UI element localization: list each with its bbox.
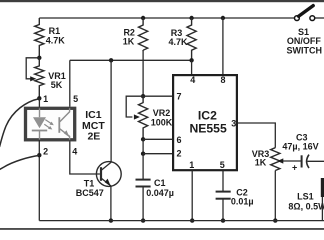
wire IC2 pin1 to ground rail bbox=[191, 171, 193, 221]
svg-text:4.7K: 4.7K bbox=[46, 36, 66, 46]
svg-text:47µ, 16V: 47µ, 16V bbox=[282, 141, 318, 151]
svg-text:2: 2 bbox=[176, 148, 181, 158]
wire IC2 pin8 riser bbox=[222, 18, 224, 75]
node VR2 top / IC2 pin7 junction bbox=[141, 94, 145, 98]
IC1 internal phototransistor emitter bbox=[60, 129, 70, 140]
svg-text:C1: C1 bbox=[154, 178, 166, 188]
svg-text:5: 5 bbox=[220, 160, 225, 170]
optocoupler IC1 package bbox=[26, 108, 75, 140]
capacitor C3 plus plate bbox=[301, 155, 303, 167]
node R3 top junction bbox=[189, 16, 193, 20]
wire R2 bottom to VR2 (crosses node A line) bbox=[142, 50, 144, 96]
wire node A horizontal (pin5 / T1 collector / R3 / IC2 pin4) bbox=[70, 59, 192, 61]
svg-text:0.047µ: 0.047µ bbox=[146, 188, 174, 198]
svg-text:8Ω, 0.5W: 8Ω, 0.5W bbox=[288, 202, 324, 212]
op IC2 NE555 package bbox=[173, 75, 237, 170]
IC1 internal phototransistor collector bbox=[60, 108, 70, 122]
resistor R1 bbox=[35, 18, 44, 58]
svg-text:SWITCH: SWITCH bbox=[287, 46, 323, 56]
wire input lead to IC1 pin1 (curved) bbox=[0, 99, 39, 147]
svg-text:0.01µ: 0.01µ bbox=[231, 197, 254, 207]
potentiometer VR1 bbox=[35, 58, 44, 99]
svg-text:4.7K: 4.7K bbox=[168, 37, 188, 47]
svg-text:R1: R1 bbox=[49, 26, 61, 36]
wire IC1 pin4 to T1 base bbox=[70, 141, 100, 174]
node R1/VR1 junction bbox=[37, 56, 41, 60]
IC1 internal LED anode lead bbox=[39, 108, 41, 117]
svg-text:ON/OFF: ON/OFF bbox=[287, 36, 321, 46]
svg-text:1K: 1K bbox=[123, 37, 135, 47]
wire VR2 bottom to pin2 node bbox=[142, 139, 144, 153]
node R3 bottom / IC2 pin4 junction bbox=[189, 58, 193, 62]
wire VR3 wiper to C3 bbox=[281, 160, 302, 162]
wire IC1 pin5 riser to node A bbox=[69, 60, 71, 106]
svg-text:5: 5 bbox=[73, 94, 78, 104]
svg-text:3: 3 bbox=[231, 119, 236, 129]
svg-text:BC547: BC547 bbox=[76, 188, 104, 198]
node IC1 pin1 junction bbox=[37, 96, 41, 100]
wire IC2 pin4 riser bbox=[191, 60, 193, 75]
node C1/rail junction bbox=[141, 218, 145, 222]
wire top supply rail bbox=[39, 17, 294, 19]
svg-text:6: 6 bbox=[176, 135, 181, 145]
VR1 wiper arrowhead bbox=[30, 76, 36, 81]
wire C2 to ground rail bbox=[222, 199, 224, 220]
node R2 top junction bbox=[141, 16, 145, 20]
wire IC1 pin1 into package bbox=[38, 98, 40, 108]
wire VR3 bottom to ground rail bbox=[274, 171, 276, 221]
svg-text:+: + bbox=[292, 163, 297, 173]
node C2/rail junction bbox=[221, 218, 225, 222]
switch S1 bbox=[295, 6, 315, 21]
wire LS1 to ground rail bbox=[321, 197, 323, 221]
node IC1 pin2 junction bbox=[37, 153, 41, 157]
svg-text:100K: 100K bbox=[151, 118, 173, 128]
svg-text:1K: 1K bbox=[255, 158, 267, 168]
wire input lead to IC1 pin2 (curved) bbox=[0, 155, 39, 169]
svg-text:LS1: LS1 bbox=[297, 191, 314, 201]
IC1 light arrow 1 bbox=[45, 120, 54, 126]
wire bottom ground rail bbox=[39, 220, 324, 222]
VR3 wiper arrowhead bbox=[277, 158, 283, 163]
wire IC2 pin3 to VR3 bbox=[238, 123, 275, 148]
node VR3/rail junction bbox=[273, 218, 277, 222]
svg-text:7: 7 bbox=[176, 92, 181, 102]
svg-text:VR2: VR2 bbox=[153, 108, 171, 118]
wire T1 collector riser bbox=[110, 60, 112, 162]
wire T1 emitter to ground rail bbox=[110, 186, 112, 220]
wire IC2 pin6 bbox=[143, 138, 172, 140]
bottom border bar bbox=[0, 228, 324, 230]
wire VR1 wiper loop bbox=[26, 58, 39, 79]
node pin1/rail junction bbox=[190, 218, 194, 222]
resistor R3 bbox=[187, 18, 196, 60]
node VR2 bottom / IC2 pin6 junction bbox=[141, 137, 145, 141]
IC1 internal LED cathode bar bbox=[32, 130, 47, 132]
svg-text:4: 4 bbox=[72, 146, 77, 156]
IC1 internal phototransistor base bar bbox=[58, 117, 60, 133]
node IC2 pin2 junction bbox=[141, 152, 145, 156]
IC1 internal LED bbox=[33, 117, 46, 128]
wire pin2 node down to C1 bbox=[142, 154, 144, 179]
capacitor C2 bbox=[216, 192, 231, 199]
potentiometer VR2 bbox=[139, 96, 148, 139]
wire rail stub after switch bbox=[315, 17, 324, 19]
wire C3 to speaker LS1 bbox=[308, 160, 324, 162]
node T1 collector junction bbox=[109, 58, 113, 62]
svg-text:4: 4 bbox=[190, 75, 195, 85]
svg-text:2: 2 bbox=[43, 147, 48, 157]
speaker LS1 bbox=[321, 178, 324, 197]
wire IC1 pin2 down to ground rail bbox=[38, 140, 40, 221]
capacitor C1 bbox=[136, 180, 151, 187]
node IC2 pin8 rail junction bbox=[221, 16, 225, 20]
top border bar bbox=[0, 0, 324, 2]
transistor T1 bbox=[96, 162, 121, 187]
svg-text:NE555: NE555 bbox=[189, 121, 226, 135]
svg-text:1: 1 bbox=[43, 94, 48, 104]
VR2 wiper arrowhead bbox=[134, 114, 140, 119]
resistor R2 bbox=[139, 18, 148, 50]
wire IC2 pin5 to C2 bbox=[222, 171, 224, 192]
wire IC2 pin7 bbox=[143, 95, 172, 97]
wire VR2 wiper loop bbox=[126, 96, 143, 117]
capacitor C3 curved plate bbox=[307, 155, 309, 168]
svg-text:2E: 2E bbox=[87, 131, 100, 143]
wire C1 to ground rail bbox=[142, 187, 144, 221]
IC1 internal LED cathode lead bbox=[39, 131, 41, 140]
svg-text:1: 1 bbox=[189, 160, 194, 170]
wire IC2 pin2 bbox=[143, 153, 172, 155]
svg-text:5K: 5K bbox=[51, 80, 63, 90]
node T1 emitter/rail junction bbox=[109, 218, 113, 222]
potentiometer VR3 bbox=[271, 148, 280, 171]
svg-text:8: 8 bbox=[220, 75, 225, 85]
IC1 light arrow 2 bbox=[44, 124, 52, 129]
